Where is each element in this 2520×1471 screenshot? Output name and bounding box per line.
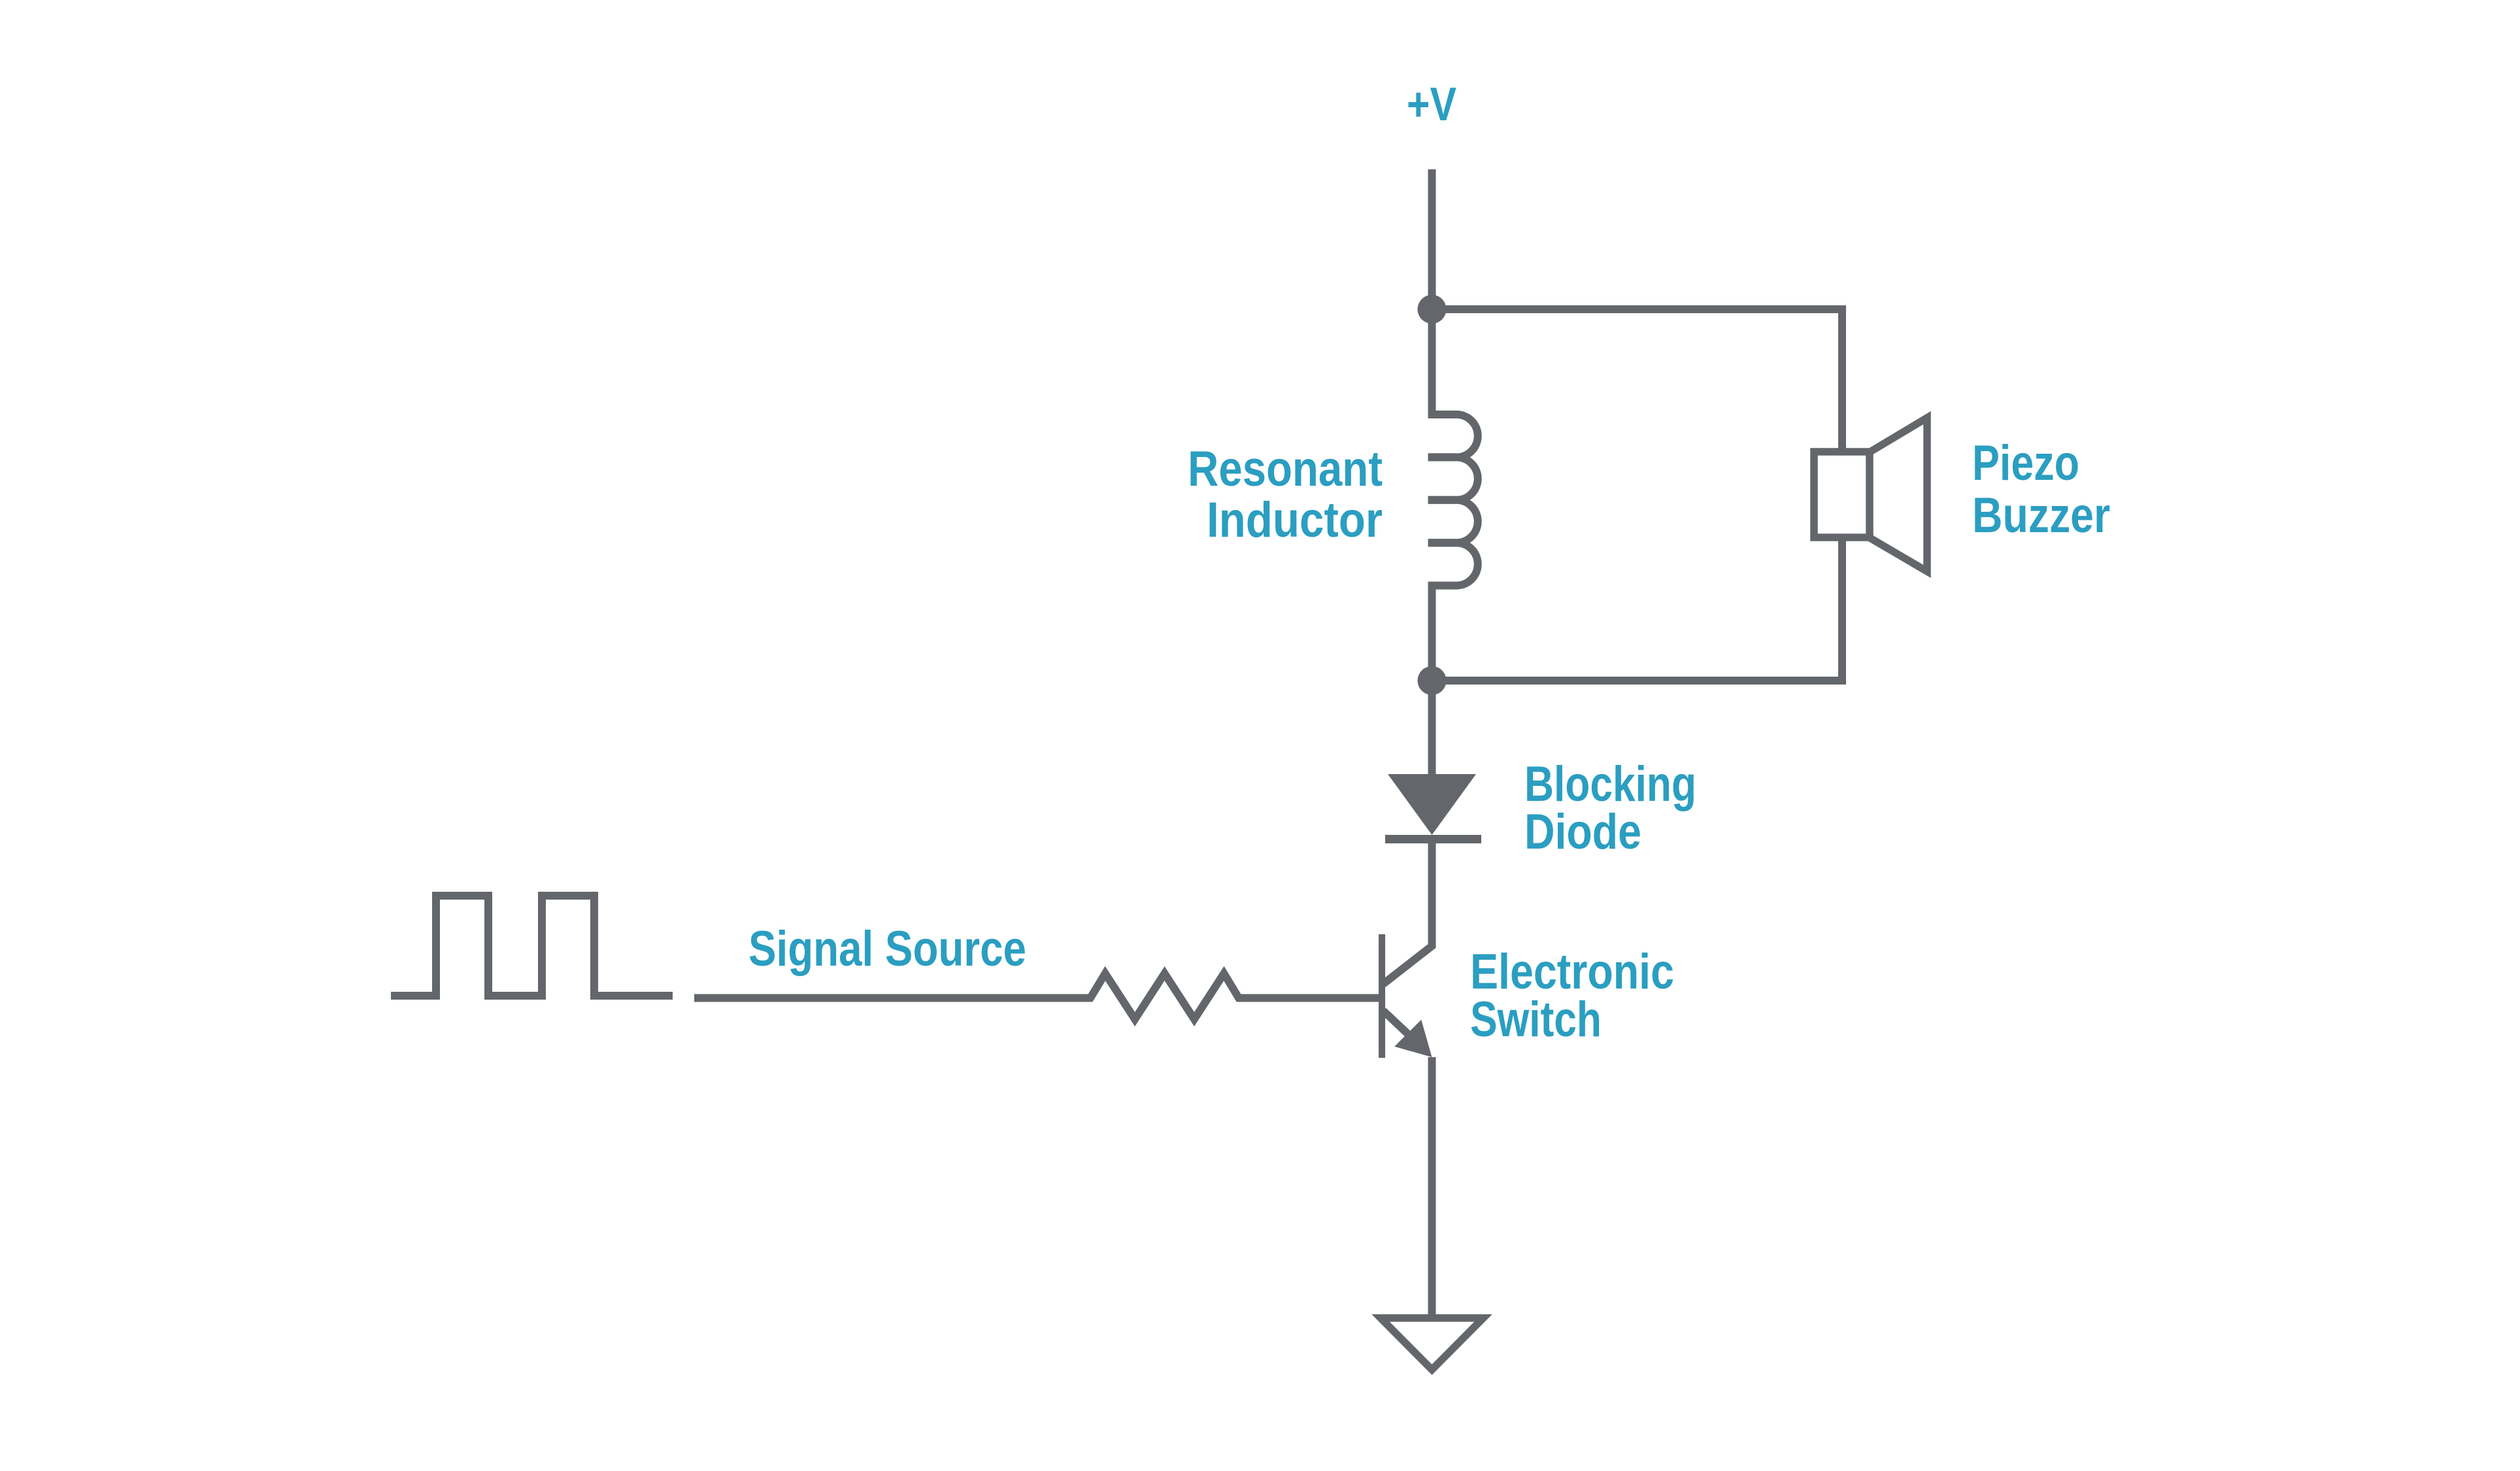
label Resonant Inductor	[1188, 441, 1383, 548]
transistor Q1 emitter arrowhead	[1394, 1020, 1432, 1057]
wire base from signal source to transistor	[694, 994, 1086, 1002]
svg-text:+V: +V	[1407, 78, 1456, 131]
speaker LS1 piezo buzzer box	[1814, 452, 1870, 537]
label Electronic Switch	[1470, 944, 1674, 1047]
svg-text:Buzzer: Buzzer	[1972, 488, 2110, 543]
svg-text:Diode: Diode	[1524, 804, 1641, 860]
diode D1 cathode bar	[1385, 835, 1481, 843]
node junction dot top	[1418, 295, 1447, 324]
node junction dot bottom	[1418, 666, 1447, 695]
wire emitter down to ground	[1428, 1057, 1436, 1315]
transistor Q1 base bar	[1379, 934, 1385, 1058]
speaker LS1 piezo buzzer horn	[1870, 418, 1927, 571]
svg-text:Signal Source: Signal Source	[748, 921, 1026, 977]
inductor L1 resonant inductor	[1428, 309, 1478, 681]
wire top rail from junction to piezo branch	[1432, 309, 1843, 452]
ground symbol	[1381, 1318, 1483, 1370]
label Blocking Diode	[1524, 756, 1696, 860]
svg-text:Inductor: Inductor	[1207, 492, 1383, 548]
svg-text:Piezo: Piezo	[1972, 435, 2079, 491]
diode D1 anode triangle	[1388, 774, 1476, 835]
signal source square wave	[391, 896, 673, 996]
svg-text:Switch: Switch	[1470, 992, 1602, 1047]
label Piezo Buzzer	[1972, 435, 2110, 543]
wire supply from +V down to top junction	[1428, 169, 1436, 309]
wire from diode down to transistor collector	[1383, 843, 1432, 984]
wire from bottom junction down to diode	[1428, 681, 1436, 778]
svg-text:Resonant: Resonant	[1188, 441, 1383, 497]
resistor R1 base resistor	[1079, 973, 1250, 1019]
transistor Q1 emitter line	[1383, 1011, 1417, 1042]
wire buzzer bottom branch down	[1432, 541, 1843, 681]
